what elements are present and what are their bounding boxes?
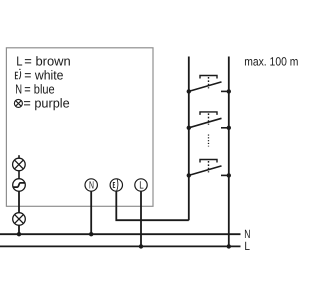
left pushbutton bus [188, 57, 190, 221]
switch output symbol (step in circle) [13, 179, 26, 192]
junction dot L terminal [139, 244, 143, 248]
device box [6, 48, 153, 207]
svg-text:= blue: = blue [24, 82, 54, 97]
wire lamp to N line [18, 225, 20, 234]
svg-text:= white: = white [24, 67, 63, 82]
external lamp symbol [13, 213, 26, 226]
wire button terminal to pushbutton bus [116, 191, 189, 220]
svg-text:L: L [244, 239, 250, 253]
svg-text:= purple: = purple [23, 95, 69, 110]
right pushbutton bus [228, 57, 230, 247]
svg-text:L: L [139, 180, 144, 192]
wire terminal L to L line [140, 191, 142, 246]
junction dot right bus on L line [227, 244, 231, 248]
svg-text:max. 100 m: max. 100 m [244, 55, 298, 69]
terminal N [85, 179, 97, 191]
pushbutton S2 [189, 112, 229, 128]
terminal button-input [110, 179, 122, 191]
pushbutton S1 [189, 76, 229, 92]
wire terminal N to N line [90, 191, 92, 234]
legend symbol purple lamp [14, 99, 22, 107]
junction dot N terminal [89, 232, 93, 236]
ellipsis more buttons [208, 135, 210, 147]
junction dot lamp-N [17, 232, 21, 236]
svg-text:L: L [16, 54, 22, 69]
internal lamp stub [18, 155, 20, 158]
internal lamp symbol [13, 158, 26, 171]
wire lamp to switch-output [18, 171, 20, 179]
L line [0, 245, 241, 247]
svg-text:N: N [89, 180, 94, 192]
terminal L [135, 179, 147, 191]
legend symbol white-wire (button pictogram) [15, 69, 20, 79]
N line [0, 233, 241, 235]
wire switch-output down to external lamp [18, 191, 20, 212]
pushbutton S3 [189, 160, 229, 176]
svg-text:N: N [15, 82, 22, 97]
